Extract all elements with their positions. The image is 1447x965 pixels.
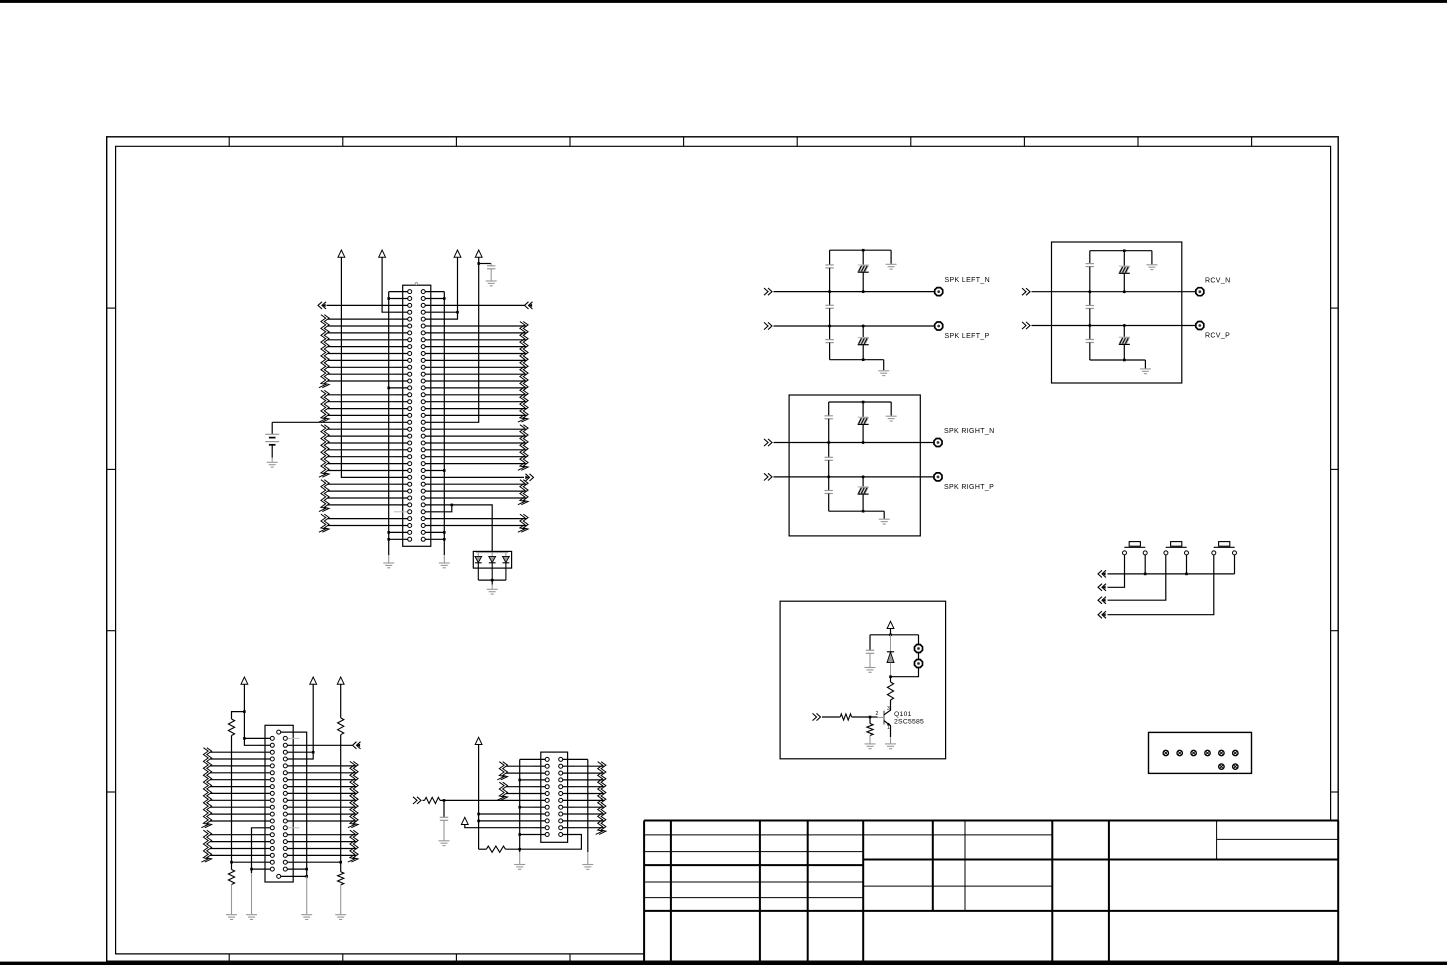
- off-page connector SPK RIGHT_N input: [768, 439, 772, 446]
- wire CN2 row19 right: [287, 861, 340, 863]
- wire CN1 row37 right to bus GR: [425, 538, 444, 540]
- junction VCC3 row4: [456, 311, 459, 314]
- diode array ground bus: [478, 579, 506, 581]
- wire R203 down chain: [340, 735, 342, 872]
- off-page connector CN3 row7 input: [417, 797, 421, 804]
- capacitor chain SPK LEFT: [829, 250, 831, 265]
- svg-text:2SC5585: 2SC5585: [894, 719, 924, 726]
- off-page connector switch bus: [1098, 570, 1102, 577]
- junction top pin bus row20: [305, 868, 308, 871]
- wire R201 to row19 junction: [231, 736, 233, 863]
- RCV filter box: [1052, 242, 1182, 383]
- ground at Q101 emitter: [890, 737, 892, 743]
- svg-text:3: 3: [887, 706, 890, 712]
- resistor R203: [338, 718, 344, 735]
- ground at CN3 left bus: [514, 864, 525, 866]
- switch SW3: [1219, 542, 1230, 547]
- wire SW3 left line: [1108, 555, 1214, 615]
- pad SPK LEFT_P: [935, 322, 943, 330]
- off-page connector CN1 row28 right: [530, 474, 534, 481]
- wire CN3 row6 left: [506, 793, 545, 795]
- off-page torn edge rows34-35 left: [319, 514, 326, 532]
- junction collector node: [889, 675, 892, 678]
- wire SPK LEFT top rail: [830, 249, 892, 251]
- ground at SPK LEFT top rail: [890, 250, 892, 264]
- connector CN4 pads row 2: [1219, 764, 1224, 769]
- junction GL row36: [387, 531, 390, 534]
- junction rows32-33: [451, 504, 454, 507]
- ground bus left of CN3: [519, 759, 521, 852]
- wire SW1 left line: [1108, 555, 1125, 587]
- off-page torn edge rows29-31 right: [518, 480, 525, 505]
- ground bus GL left of CN1: [388, 292, 390, 555]
- pad P101: [915, 645, 923, 653]
- ground at SPK RIGHT top rail: [890, 402, 892, 416]
- connector CN1 body: [403, 285, 431, 546]
- SPK RIGHT filter box: [789, 395, 920, 536]
- wire SW1 right to bus: [1144, 555, 1146, 574]
- wire CN1 row4 right to VCC3 bus: [425, 311, 457, 313]
- off-page connector CN2 row2: [353, 742, 357, 749]
- wire VCC4 bus to CN1 row20 right: [425, 257, 479, 422]
- wire VCC-C to R203: [340, 684, 342, 718]
- wire VCC4 to capacitor C1: [479, 263, 492, 265]
- resistor R101: [890, 677, 892, 682]
- pad SPK LEFT_N: [935, 288, 943, 296]
- junction VCC-D row9: [477, 813, 480, 816]
- connector CN3 pins left column: [545, 757, 549, 836]
- off-page torn edge CN3 rows2-3 left: [497, 762, 504, 780]
- ground at C101: [865, 667, 876, 669]
- off-page torn edge CN3 rows5-6 left: [497, 782, 504, 800]
- wire SW2 left line: [1108, 555, 1166, 600]
- wire CN2 row20 right: [287, 868, 306, 870]
- svg-text:1: 1: [887, 725, 890, 731]
- off-page torn edge rows29-32 left: [319, 480, 326, 512]
- junction row14 chain row20: [250, 868, 253, 871]
- svg-text:Q101: Q101: [894, 711, 912, 718]
- capacitor C101: [869, 635, 871, 650]
- pad SPK RIGHT_N: [934, 439, 942, 447]
- ground at BT1: [267, 461, 278, 463]
- wire VCC-E to CN3 row11: [465, 825, 545, 828]
- junction CN3 bus row8: [518, 806, 521, 809]
- outer border frame: [107, 137, 1339, 961]
- off-page torn edge rows21-26 right: [518, 425, 525, 471]
- junction VCC-C chain row19: [339, 861, 342, 864]
- connector CN3 pins right column: [559, 757, 563, 836]
- wire CN2 row3 right to VCC-B: [287, 751, 313, 753]
- ground GR: [439, 562, 450, 564]
- off-page connector SW2: [1098, 597, 1102, 604]
- switch SW1: [1129, 542, 1140, 547]
- varistor RV1: [862, 250, 864, 265]
- connector CN1 pins left column: [408, 290, 412, 542]
- resistor R302: [423, 799, 425, 801]
- ground at C1: [486, 280, 497, 282]
- junction SPK RIGHT top rail: [862, 401, 865, 404]
- wire CN1 row36 left to bus GL: [389, 531, 408, 533]
- wire CN3 row2 left: [506, 765, 545, 767]
- capacitor C1: [490, 264, 492, 266]
- junction RCV top rail: [1123, 249, 1126, 252]
- resistor R204: [338, 872, 344, 885]
- junction dots SPK RIGHT_N: [827, 441, 830, 444]
- junction CN3 bus row12: [518, 833, 521, 836]
- off-page torn edge rows21-27 left: [319, 425, 326, 478]
- capacitor chain RCV: [1089, 251, 1091, 264]
- power symbol VCC2: [379, 250, 386, 257]
- wire VCC-A bus to CN2 rows1-2: [244, 684, 270, 745]
- connector CN1 top index pin: [415, 282, 417, 284]
- wire CN2 row20 left: [252, 868, 271, 870]
- connector CN2 pins right column: [283, 736, 287, 871]
- connector CN2 pins left column: [270, 736, 274, 871]
- varistor RV6: [1123, 326, 1125, 338]
- ground at RCV top rail: [1151, 251, 1153, 265]
- junction GL row15: [387, 387, 390, 390]
- varistor RV2: [862, 326, 864, 338]
- connector CN4 pads row 1: [1163, 750, 1168, 755]
- power symbol VCC3: [454, 250, 461, 257]
- diode D1b: [491, 553, 493, 557]
- wires CN1 rows34-35 left bundle: [328, 519, 408, 526]
- junction VCC-A row1: [243, 737, 246, 740]
- ground at SPK RIGHT bottom rail: [883, 511, 885, 519]
- off-page connector Q101 base input: [817, 713, 821, 720]
- wire CN3 row1 right to ground bus: [563, 758, 588, 760]
- junction dots SPK LEFT_N: [828, 290, 831, 293]
- wire CN1 row2 left to bus GL: [389, 298, 408, 300]
- diode array D1 body: [473, 551, 511, 568]
- svg-text:SPK LEFT_P: SPK LEFT_P: [945, 333, 990, 340]
- junction top pin bus bottom pin: [305, 875, 308, 878]
- wire VCC2 bus to CN1 row4: [382, 257, 408, 312]
- off-page torn edge CN2 rows3-13 left: [201, 748, 208, 828]
- junction VCC4 capacitor tap: [477, 262, 480, 265]
- svg-text:RCV_N: RCV_N: [1205, 277, 1230, 284]
- power symbol CN3 VCC-E: [461, 817, 468, 824]
- wires CN1 rows29-32 left bundle: [328, 484, 408, 505]
- svg-text:SPK RIGHT_N: SPK RIGHT_N: [944, 428, 995, 435]
- transistor Q101: [883, 711, 885, 725]
- off-page torn edge CN2 rows15-18 right: [348, 830, 355, 862]
- wires CN1 rows29-31 right bundle: [425, 484, 526, 498]
- diode D1c: [505, 553, 507, 557]
- junction GL row2: [387, 297, 390, 300]
- pad RCV_N: [1196, 288, 1204, 296]
- wire CN2 top pin bus: [281, 732, 307, 876]
- switch SW2: [1171, 542, 1182, 547]
- wires CN1 rows34-35 right bundle: [425, 519, 526, 526]
- junction RCV bottom rail: [1123, 359, 1126, 362]
- connector CN2 top pin: [277, 730, 281, 734]
- wire CN1 row3 left: [327, 304, 408, 306]
- diode array D1 top rail: [476, 552, 508, 554]
- wire VCC-B bus to CN2 rows3-4 right: [287, 684, 313, 759]
- wire CN1 row37 left to bus GL: [389, 538, 408, 540]
- power symbol Q101 VCC: [887, 621, 894, 628]
- wire VCC1 bus to CN1 row28: [341, 257, 407, 477]
- off-page connector SPK RIGHT_P input: [768, 473, 772, 480]
- ground at RCV bottom rail: [1144, 360, 1146, 368]
- wire CN2 bottom pin: [281, 875, 307, 877]
- wire CN1 row3 right: [425, 304, 525, 306]
- resistor R103 base pulldown: [869, 717, 871, 724]
- off-page connector CN1 row3 right: [525, 302, 529, 309]
- junction GR row36: [443, 531, 446, 534]
- page top margin bar: [0, 0, 1447, 3]
- junction Q101 base node: [869, 716, 872, 719]
- junction CN3 bus row4: [518, 779, 521, 782]
- wire SPK RIGHT top rail: [829, 401, 892, 403]
- wire CN3 row5 left: [506, 786, 545, 788]
- junction VCC-A resistor tap: [243, 710, 246, 713]
- ground at CN3 right bus: [582, 864, 593, 866]
- wire SPK LEFT_N line: [774, 291, 935, 293]
- wire switch common bus: [1108, 573, 1235, 575]
- connector CN3 pin lead stubs: [533, 759, 575, 834]
- off-page connector CN1 row3 left: [318, 302, 322, 309]
- wire pads to collector node: [891, 668, 919, 677]
- connector CN3 body: [541, 752, 568, 842]
- connector CN2 pin lead stubs: [258, 738, 299, 869]
- ground GL: [383, 562, 394, 564]
- svg-text:RCV_P: RCV_P: [1205, 332, 1230, 339]
- wire CN3 row9 left to VCC-D: [479, 813, 546, 815]
- resistor R202: [228, 870, 234, 885]
- junction VCC-B row3: [312, 751, 315, 754]
- resistor R301: [486, 846, 505, 852]
- junction dots SPK RIGHT_P: [827, 475, 830, 478]
- off-page torn edge CN2 rows15-18 left: [201, 830, 208, 862]
- svg-text:SPK LEFT_N: SPK LEFT_N: [945, 277, 991, 284]
- connector CN1 pins right column: [421, 290, 425, 542]
- junction R302 capacitor tap: [443, 799, 446, 802]
- varistor RV3: [862, 402, 864, 417]
- wire CN1 row1 right to ground bus GR: [425, 291, 444, 293]
- off-page torn edge CN2 rows5-13 right: [348, 761, 355, 827]
- ground at row14 chain: [246, 914, 257, 916]
- ground at CN2 pin bus: [301, 914, 312, 916]
- wire SPK RIGHT bottom rail: [829, 510, 885, 512]
- junction Q101 top rail: [889, 634, 892, 637]
- wires CN2 rows3-13 left bundle: [210, 752, 270, 821]
- wire CN1 row36 right to bus GR: [425, 531, 444, 533]
- border zone tick marks: [107, 137, 1339, 961]
- wires CN2 rows15-18 right bundle: [287, 835, 356, 856]
- junction bottom rail: [862, 358, 865, 361]
- diode D101: [890, 635, 892, 652]
- power symbol CN2 VCC-B: [310, 677, 317, 684]
- wire SPK LEFT_P line: [774, 325, 935, 327]
- battery BT1: [271, 422, 273, 434]
- power symbol VCC4: [475, 250, 482, 257]
- ground at R204: [335, 914, 346, 916]
- wire SPK RIGHT_P line: [774, 476, 934, 478]
- connector CN1 pin lead stubs: [394, 292, 440, 540]
- wires CN2 rows5-13 right bundle: [287, 766, 356, 821]
- power symbol CN2 VCC-C: [337, 677, 344, 684]
- off-page torn edge CN3 rows2-11 right: [596, 762, 603, 835]
- ground at diode array: [487, 588, 498, 590]
- wires CN1 rows6-19 right bundle: [425, 326, 526, 415]
- off-page connector SPK LEFT_N input: [768, 288, 772, 295]
- svg-text:SPK RIGHT_P: SPK RIGHT_P: [944, 484, 994, 491]
- power symbol VCC1: [338, 250, 345, 257]
- junction GR row27: [443, 469, 446, 472]
- wire CN1 row15 left to bus GL: [389, 387, 408, 389]
- resistor R201: [228, 719, 234, 736]
- wire VCC-A tap to R201: [232, 712, 245, 719]
- ground at R103: [865, 743, 876, 745]
- junction dots RCV_P: [1088, 324, 1091, 327]
- wires CN1 rows21-27 left bundle: [328, 429, 408, 470]
- wire Q101 pad branch: [918, 635, 920, 644]
- ground at SPK LEFT bottom rail: [883, 360, 885, 371]
- off-page torn edge rows5-14 left: [319, 315, 326, 388]
- off-page connector RCV_P input: [1026, 322, 1030, 329]
- wire CN3 row8 left: [520, 806, 546, 808]
- junction dots RCV_N: [1088, 290, 1091, 293]
- junction dots SPK LEFT_P: [828, 325, 831, 328]
- junction SW2 bus: [1185, 573, 1188, 576]
- pad SPK RIGHT_P: [934, 473, 942, 481]
- wire CN3 row4 left: [520, 779, 546, 781]
- wire SPK RIGHT_N line: [774, 442, 934, 444]
- varistor RV4: [862, 477, 864, 487]
- wire CN3 row3 left: [506, 772, 545, 774]
- connector CN2 body: [265, 725, 293, 882]
- wire RCV_N line: [1032, 291, 1196, 293]
- wire R302 to CN3 row7: [440, 799, 545, 801]
- wire CN1 row1 left to ground bus GL: [389, 291, 408, 293]
- wire RCV top rail: [1090, 250, 1152, 252]
- wires CN3 rows2-11 right bundle: [563, 766, 605, 828]
- power symbol CN2 VCC-A: [241, 677, 248, 684]
- wire CN1 row2 right to bus GR: [425, 298, 444, 300]
- wire RCV bottom rail: [1090, 359, 1146, 361]
- svg-text:2: 2: [876, 711, 879, 717]
- off-page connector SW3: [1098, 611, 1102, 618]
- wire CN3 row12 left: [520, 834, 546, 836]
- page bottom margin bar: [0, 962, 1447, 965]
- wires CN1 rows5-14 left bundle: [328, 319, 408, 381]
- wire RCV_P line: [1032, 325, 1196, 327]
- wire CN2 row1 to VCC-A bus: [244, 737, 270, 739]
- pad RCV_P: [1196, 322, 1204, 330]
- connector CN4 body: [1149, 732, 1252, 773]
- off-page torn edge rows6-19 right: [518, 322, 525, 423]
- capacitor C301: [443, 800, 445, 817]
- junction GL row37: [387, 538, 390, 541]
- wire VCC3 bus to CN1 rows4-5: [425, 257, 457, 319]
- junction GR row37: [443, 538, 446, 541]
- ground at R202: [226, 914, 237, 916]
- off-page connector SPK LEFT_P input: [768, 322, 772, 329]
- wire SW2 right to bus: [1186, 555, 1188, 574]
- off-page torn edge rows16-19 left: [319, 390, 326, 422]
- wire CN1 row28 right: [425, 476, 524, 478]
- wire CN3 row1 left to ground bus: [520, 758, 546, 760]
- junction GR row2: [443, 297, 446, 300]
- junction SW1 bus: [1144, 573, 1147, 576]
- off-page connector RCV_N input: [1026, 288, 1030, 295]
- off-page connector SW1: [1098, 584, 1102, 591]
- varistor RV5: [1123, 251, 1125, 267]
- resistor R102 base series: [852, 716, 870, 718]
- wire CN2 row19 left: [232, 861, 271, 863]
- junction SPK RIGHT bottom rail: [862, 510, 865, 513]
- junction top rail varistor: [862, 249, 865, 252]
- wire CN2 row14 chain: [252, 828, 271, 873]
- wire CN2 row2 right: [287, 744, 352, 746]
- wire CN3 row10 left to VCC-D: [479, 820, 546, 822]
- wire Q101 top rail: [870, 634, 919, 636]
- diode D1a: [477, 553, 479, 557]
- ground bus GR right of CN1: [443, 292, 445, 555]
- connector CN2 bottom pin: [277, 874, 281, 878]
- wire CN1 row20 left to battery BT1: [272, 421, 408, 423]
- pad P102: [915, 660, 923, 668]
- wire R301 to CN3 row12 right: [505, 835, 581, 850]
- Q101 circuit box: [780, 601, 946, 759]
- ground at C301: [439, 840, 450, 842]
- wires CN1 rows16-19 left bundle: [328, 395, 408, 416]
- inner border frame: [116, 146, 1331, 954]
- title block table: [644, 821, 1338, 962]
- junction diode bus: [491, 579, 494, 582]
- wire VCC-D to resistor R301: [479, 848, 487, 850]
- capacitor chain SPK RIGHT: [828, 402, 830, 416]
- junction VCC-D row10: [477, 820, 480, 823]
- wires CN1 rows21-26 right bundle: [425, 429, 526, 463]
- wire VCC-D bus: [478, 745, 480, 850]
- wire CN1 row27 right to bus GR: [425, 470, 444, 472]
- off-page torn edge rows34-35 right: [518, 514, 525, 532]
- wire SPK LEFT bottom rail: [830, 359, 884, 361]
- wires CN2 rows15-18 left bundle: [210, 835, 270, 856]
- junction R201 chain row19: [230, 861, 233, 864]
- power symbol CN3 VCC-D: [475, 737, 482, 744]
- wire CN1 row33 right riser: [425, 505, 452, 512]
- junction CN3 bus resistor wire: [518, 848, 521, 851]
- wire CN1 row32 right to diode array: [425, 505, 492, 553]
- wire SW3 right to bus: [1234, 555, 1236, 574]
- ground bus right of CN3: [587, 759, 589, 852]
